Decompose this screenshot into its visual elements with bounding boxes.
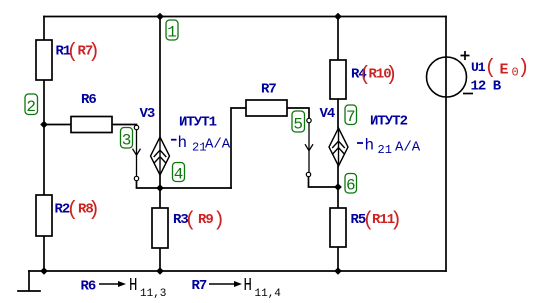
- label -h21 A/A right: [357, 142, 363, 144]
- junction node1 top: [156, 13, 164, 21]
- junction R3 bottom: [156, 267, 164, 275]
- svg-text:(: (: [185, 210, 196, 233]
- svg-text:(: (: [67, 41, 78, 64]
- svg-text:H: H: [129, 274, 137, 295]
- svg-text:2: 2: [26, 98, 36, 116]
- svg-text:h: h: [365, 137, 375, 155]
- wire R7 left down: [231, 108, 246, 188]
- wire R6 right: [112, 125, 137, 126]
- resistor R5: [330, 208, 346, 247]
- label -h21 A/A left: [171, 139, 177, 141]
- svg-text:R6: R6: [81, 279, 96, 295]
- svg-text:): ): [390, 210, 401, 233]
- svg-text:ИТУТ2: ИТУТ2: [370, 114, 408, 130]
- node 3: [121, 128, 133, 150]
- U1 plus sign: [461, 51, 470, 60]
- wire left vertical upper: [43, 17, 45, 41]
- wire V3 control lower stub: [137, 181, 232, 189]
- svg-text:7: 7: [346, 108, 356, 126]
- resistor R2: [36, 195, 52, 236]
- svg-text:V3: V3: [140, 106, 155, 122]
- resistor R4: [330, 60, 346, 99]
- wire left vertical middle: [43, 80, 45, 195]
- svg-text:А/А: А/А: [395, 140, 421, 156]
- svg-text:): ): [88, 41, 99, 64]
- wire diamond V4 bottom to R5: [337, 166, 339, 208]
- V3 terminal top: [134, 125, 138, 129]
- node 5: [292, 111, 305, 134]
- wire R6 left: [44, 124, 71, 126]
- voltage source U1 circle: [427, 57, 467, 97]
- wire bottom horizontal: [29, 270, 446, 272]
- wire R3 bottom: [159, 248, 161, 271]
- junction bottom left: [40, 267, 48, 275]
- svg-text:(: (: [485, 57, 496, 80]
- svg-text:4: 4: [174, 166, 184, 184]
- svg-text:3: 3: [122, 132, 132, 150]
- U1 minus sign: [463, 93, 473, 95]
- arrow 2: [209, 283, 235, 285]
- svg-text:12 В: 12 В: [471, 79, 502, 95]
- wire center vertical top (node 1 to V3 diamond): [159, 17, 161, 138]
- svg-text:А/А: А/А: [205, 137, 231, 153]
- wire right vertical: [445, 17, 447, 272]
- svg-text:): ): [386, 64, 397, 87]
- wire R4 bottom to diamond V4: [337, 99, 339, 128]
- svg-text:1: 1: [167, 24, 177, 42]
- svg-text:21: 21: [378, 143, 392, 157]
- cccs U-ITUT2 diamond: [329, 128, 348, 166]
- svg-text:): ): [518, 57, 529, 80]
- svg-text:H: H: [244, 274, 252, 295]
- svg-text:(: (: [67, 199, 78, 222]
- node 6: [345, 174, 357, 195]
- node 7: [345, 105, 357, 126]
- svg-text:5: 5: [293, 116, 303, 134]
- svg-text:ИТУТ1: ИТУТ1: [179, 115, 217, 131]
- wire R7 right: [287, 108, 309, 118]
- wire V4 control lower stub: [309, 177, 339, 188]
- V3 control branch arrow: [133, 130, 141, 177]
- wire R5 bottom: [337, 247, 339, 271]
- svg-text:11,3: 11,3: [140, 288, 166, 300]
- svg-text:R7: R7: [192, 278, 207, 294]
- wire top horizontal: [44, 16, 446, 18]
- resistor R1: [36, 40, 52, 80]
- junction node2: [40, 121, 48, 129]
- V3 terminal bottom: [134, 176, 138, 180]
- svg-text:6: 6: [346, 177, 356, 195]
- wire R4 top: [337, 17, 339, 61]
- arrow 1: [99, 283, 119, 285]
- node 1: [166, 20, 178, 42]
- svg-text:R9: R9: [198, 212, 213, 228]
- svg-text:): ): [88, 199, 99, 222]
- node 2: [25, 94, 38, 116]
- junction R4 top: [334, 13, 342, 21]
- svg-text:11,4: 11,4: [255, 288, 282, 300]
- V4 terminal bottom: [306, 172, 310, 176]
- junction node4: [156, 184, 164, 192]
- node 4: [173, 163, 185, 184]
- resistor R3: [152, 208, 168, 248]
- V4 control branch arrow: [305, 123, 313, 173]
- resistor R6: [71, 117, 112, 133]
- svg-text:R6: R6: [81, 92, 96, 108]
- wire left vertical lower: [43, 236, 45, 271]
- ground: [18, 271, 40, 291]
- cccs U-ITUT1 diamond: [151, 137, 170, 175]
- wire diamond V3 bottom to R3: [159, 175, 161, 208]
- svg-text:E: E: [500, 62, 509, 79]
- svg-text:V4: V4: [320, 106, 335, 122]
- junction R5 bottom: [334, 267, 342, 275]
- svg-text:): ): [213, 210, 224, 233]
- junction node6: [334, 183, 342, 191]
- V4 terminal top: [307, 118, 311, 122]
- resistor R7: [246, 100, 287, 116]
- svg-text:h: h: [178, 134, 188, 152]
- svg-text:R7: R7: [261, 82, 276, 98]
